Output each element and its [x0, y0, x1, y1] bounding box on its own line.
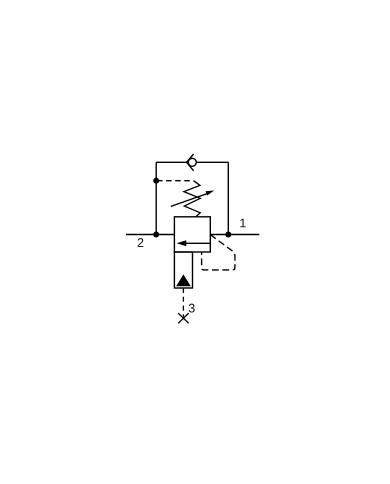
pilot dashed line to spring — [157, 180, 193, 182]
label port 3 — [189, 304, 195, 313]
spring adjustment arrow shaft — [171, 193, 209, 207]
drain dashed line — [182, 288, 184, 317]
wire top horizontal — [156, 161, 228, 163]
actuator rectangle — [174, 252, 192, 288]
pilot piston filled triangle — [176, 274, 191, 286]
label port 2 — [138, 238, 144, 247]
node 2 junction dot — [153, 232, 159, 238]
check valve circle — [188, 158, 196, 166]
label port 1 — [240, 219, 245, 228]
node A junction dot (pilot tap) — [153, 178, 159, 184]
drain X stroke 2 — [178, 313, 189, 323]
flow arrowhead — [177, 240, 187, 246]
drain X stroke 1 — [178, 313, 189, 323]
wire left vertical — [155, 162, 157, 234]
wire right vertical — [227, 162, 229, 234]
valve body U1 square — [174, 217, 210, 252]
spring adjustment arrowhead — [206, 191, 215, 196]
wire port 1 horizontal line — [210, 234, 259, 236]
node 1 junction dot — [225, 232, 231, 238]
wire port 2 horizontal line — [126, 234, 174, 236]
spring — [184, 181, 201, 217]
check valve seat — [187, 154, 194, 171]
dashed pilot box right — [202, 235, 235, 270]
flow arrow shaft — [185, 242, 210, 244]
